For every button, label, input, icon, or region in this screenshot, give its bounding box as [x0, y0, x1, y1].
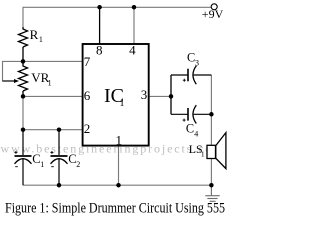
svg-text:6: 6 [84, 88, 91, 103]
svg-text:8: 8 [96, 43, 103, 58]
svg-text:C: C [32, 152, 40, 166]
svg-text:1: 1 [40, 160, 44, 169]
svg-text:1: 1 [39, 35, 43, 44]
svg-text:2: 2 [84, 121, 91, 136]
svg-text:1: 1 [120, 98, 125, 109]
svg-text:+9V: +9V [202, 7, 224, 21]
svg-text:C: C [68, 152, 76, 166]
svg-text:Figure 1: Simple Drummer Circu: Figure 1: Simple Drummer Circuit Using 5… [5, 201, 225, 217]
svg-text:1: 1 [48, 79, 52, 88]
svg-text:1: 1 [116, 133, 123, 148]
svg-text:C: C [186, 122, 194, 136]
svg-text:4: 4 [194, 129, 198, 138]
svg-text:C: C [187, 51, 195, 65]
svg-text:3: 3 [195, 58, 199, 67]
svg-text:1: 1 [201, 150, 205, 159]
svg-text:7: 7 [84, 54, 91, 69]
svg-text:3: 3 [141, 87, 148, 102]
svg-text:R: R [30, 27, 39, 42]
svg-text:4: 4 [129, 43, 136, 58]
svg-text:2: 2 [76, 160, 80, 169]
